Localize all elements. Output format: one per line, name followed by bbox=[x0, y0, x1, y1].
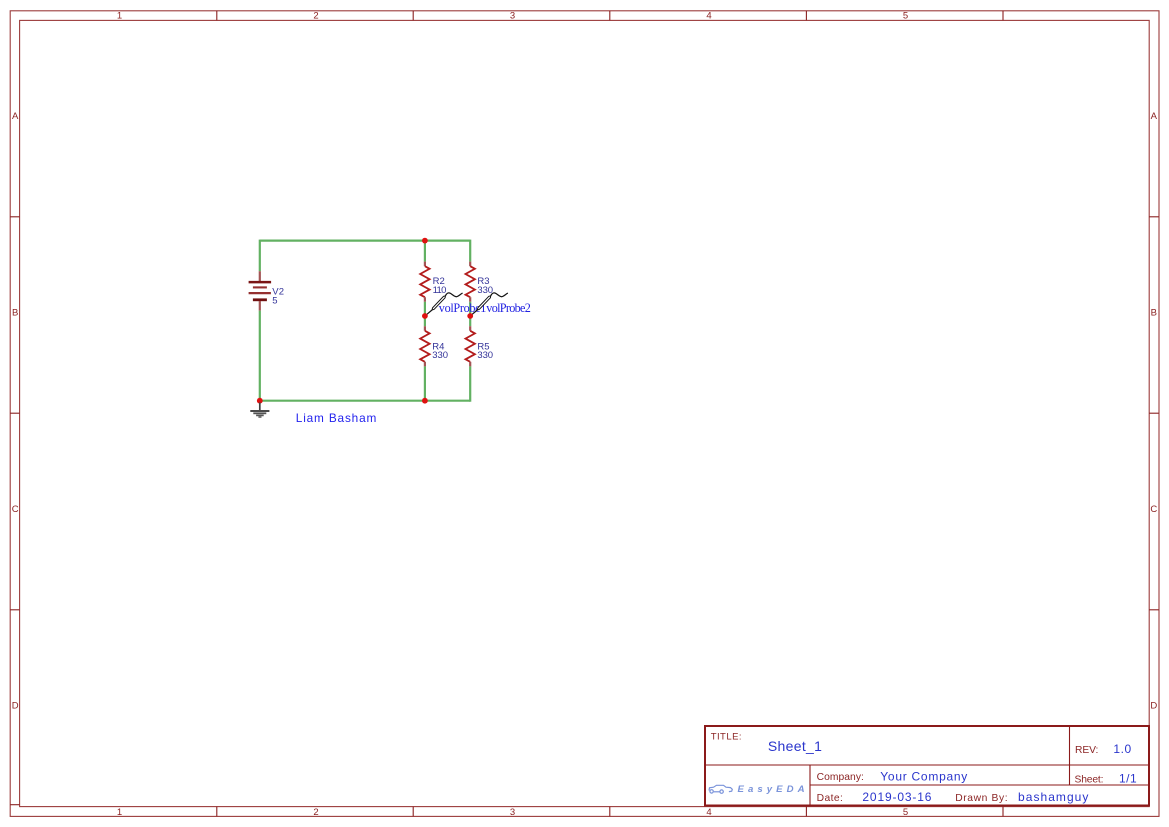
svg-text:2: 2 bbox=[313, 807, 318, 818]
resistor R5 zigzag bbox=[466, 331, 475, 362]
svg-text:Your Company: Your Company bbox=[880, 769, 967, 783]
title block vertical divider (logo cell) bbox=[809, 765, 811, 806]
voltage probe volProbe2 tail wire bbox=[472, 310, 478, 315]
resistor R2 pin bottom bbox=[424, 297, 426, 302]
resistor R5 pin bottom bbox=[469, 362, 471, 367]
junction dot bottom left (260,401) bbox=[257, 398, 263, 404]
svg-text:110: 110 bbox=[433, 285, 447, 296]
title block divider below Company row bbox=[810, 784, 1149, 786]
svg-text:Liam Basham: Liam Basham bbox=[296, 411, 377, 425]
battery V2 plate 2 (short) bbox=[253, 286, 267, 288]
title block divider below TITLE row bbox=[705, 764, 1149, 766]
resistor R2 pin top bbox=[424, 262, 426, 267]
svg-text:Drawn By:: Drawn By: bbox=[955, 793, 1007, 804]
voltage probe volProbe2 lead squiggle bbox=[491, 293, 508, 297]
column labels top 1-5 bbox=[117, 11, 908, 22]
svg-text:4: 4 bbox=[706, 11, 711, 22]
battery V2 plate 3 (long) bbox=[249, 292, 271, 294]
svg-text:A: A bbox=[1151, 111, 1158, 122]
svg-text:5: 5 bbox=[272, 296, 277, 307]
row tick marks (left margin) bbox=[10, 217, 19, 805]
wire right vertical (R5 to bottom corner) bbox=[469, 366, 471, 401]
voltage probe volProbe1 body bbox=[432, 296, 445, 310]
junction dot mid right (470,316) bbox=[467, 313, 473, 319]
svg-text:REV:: REV: bbox=[1075, 745, 1098, 756]
svg-text:330: 330 bbox=[477, 350, 493, 361]
title block outer border bbox=[705, 726, 1149, 806]
resistor R4 zigzag bbox=[420, 331, 429, 362]
svg-text:TITLE:: TITLE: bbox=[711, 731, 742, 742]
svg-text:4: 4 bbox=[706, 807, 711, 818]
svg-text:1/1: 1/1 bbox=[1119, 771, 1137, 785]
svg-text:Company:: Company: bbox=[817, 772, 864, 783]
resistor R2 zigzag bbox=[420, 266, 429, 297]
svg-text:D: D bbox=[1150, 701, 1157, 712]
svg-text:bashamguy: bashamguy bbox=[1018, 790, 1088, 804]
column tick marks (bottom margin) bbox=[217, 807, 1003, 817]
svg-text:Sheet_1: Sheet_1 bbox=[768, 738, 822, 754]
battery V2 pin bottom bbox=[259, 301, 261, 311]
battery V2 plate 1 (long) bbox=[249, 281, 272, 284]
wire middle vertical (R4 to bottom) bbox=[424, 366, 426, 400]
resistor R3 pin top bbox=[469, 262, 471, 267]
svg-text:Date:: Date: bbox=[817, 793, 843, 804]
ground stem bbox=[259, 403, 261, 411]
voltage probe volProbe1 tail wire bbox=[426, 310, 432, 315]
svg-text:5: 5 bbox=[903, 807, 908, 818]
ground bar 2 bbox=[253, 412, 266, 414]
column tick marks (top margin) bbox=[217, 11, 1003, 21]
row labels left A-D bbox=[12, 111, 19, 712]
voltage probe volProbe1 lead squiggle bbox=[445, 293, 462, 297]
svg-text:330: 330 bbox=[432, 350, 448, 361]
svg-text:volProbe2: volProbe2 bbox=[486, 301, 531, 315]
svg-text:B: B bbox=[12, 307, 18, 318]
EasyEDA logo car icon bbox=[709, 785, 732, 793]
battery V2 plate 4 (short) bbox=[253, 298, 267, 301]
ground bar 1 bbox=[250, 410, 269, 412]
resistor R4 pin bottom bbox=[424, 362, 426, 367]
resistor R4 pin top bbox=[424, 326, 426, 331]
resistor R3 pin bottom bbox=[469, 297, 471, 302]
wire top horizontal bbox=[260, 240, 470, 242]
wire left vertical lower (battery to bottom) bbox=[259, 311, 261, 401]
row tick marks (right margin) bbox=[1149, 217, 1159, 610]
resistor R5 pin top bbox=[469, 326, 471, 331]
svg-text:1: 1 bbox=[117, 807, 122, 818]
ground bar 4 bbox=[258, 416, 261, 418]
svg-text:330: 330 bbox=[477, 285, 493, 296]
svg-text:B: B bbox=[1151, 307, 1157, 318]
wire left vertical upper (to battery) bbox=[259, 240, 261, 272]
wire middle vertical (R2 to mid junction) bbox=[424, 302, 426, 326]
wire bottom horizontal bbox=[260, 400, 470, 402]
svg-text:1: 1 bbox=[117, 11, 122, 22]
svg-text:C: C bbox=[1150, 504, 1157, 515]
svg-text:2019-03-16: 2019-03-16 bbox=[862, 790, 931, 804]
svg-text:3: 3 bbox=[510, 11, 515, 22]
row labels right A-D bbox=[1150, 111, 1157, 712]
svg-text:3: 3 bbox=[510, 807, 515, 818]
resistor R3 zigzag bbox=[466, 266, 475, 297]
junction dot top (425,240) bbox=[422, 238, 428, 244]
title block vertical divider (REV column) bbox=[1069, 726, 1071, 785]
ground bar 3 bbox=[256, 414, 264, 416]
voltage probe volProbe2 body bbox=[477, 296, 490, 310]
junction dot mid left (425,316) bbox=[422, 313, 428, 319]
svg-text:2: 2 bbox=[313, 11, 318, 22]
battery V2 pin top bbox=[259, 271, 261, 281]
wire right vertical (R3 to mid junction) bbox=[469, 302, 471, 326]
svg-text:C: C bbox=[12, 504, 19, 515]
wire right vertical (top corner to R3) bbox=[469, 240, 471, 262]
svg-text:Sheet:: Sheet: bbox=[1075, 774, 1104, 785]
svg-text:1.0: 1.0 bbox=[1113, 742, 1131, 756]
junction dot bottom mid (425,401) bbox=[422, 398, 428, 404]
column labels bottom 1-5 bbox=[117, 807, 908, 818]
svg-text:A: A bbox=[12, 111, 19, 122]
svg-text:5: 5 bbox=[903, 11, 908, 22]
svg-text:D: D bbox=[12, 701, 19, 712]
wire middle vertical (top junction to R2) bbox=[424, 241, 426, 262]
